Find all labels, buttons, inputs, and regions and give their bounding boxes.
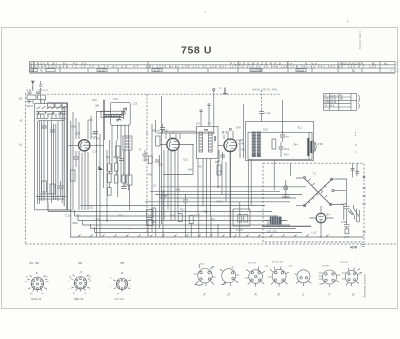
L6 winding hatch	[125, 138, 131, 147]
svg-text:R13: R13	[284, 154, 289, 157]
padding box C9	[127, 175, 132, 185]
svg-text:C 50: C 50	[317, 142, 323, 146]
voltage selector arm	[354, 209, 359, 222]
trimmer location B	[268, 266, 289, 286]
padder capacitor C2	[41, 126, 47, 128]
coil L4 winding lines	[54, 124, 56, 200]
right edge connection ticks	[363, 176, 367, 232]
socket UCH21 base	[27, 275, 47, 292]
trimmer location F	[319, 270, 341, 287]
IFT2 trimmers	[204, 130, 216, 142]
drops to chassis	[97, 210, 219, 237]
trimmer location A	[245, 267, 265, 287]
svg-text:B 2: B 2	[163, 129, 168, 133]
coupling cap C24	[221, 155, 226, 157]
top right feed wires	[353, 163, 358, 177]
chassis dashed boundary left	[25, 93, 27, 244]
svg-text:C 10: C 10	[65, 214, 71, 218]
svg-text:0,1: 0,1	[217, 185, 221, 189]
switch wafer lower	[36, 194, 66, 199]
svg-text:AE: AE	[31, 69, 35, 73]
svg-text:220 270: 220 270	[267, 229, 277, 233]
chassis dashed boundary bottom	[26, 243, 397, 245]
transformer feed taps	[296, 178, 347, 206]
heater bus line 3	[75, 215, 279, 217]
wires below tube B2	[168, 149, 178, 221]
tube B1 (UCH21 triode-hexode)	[79, 140, 90, 151]
socket UY21 pin labels	[110, 278, 132, 296]
smoothing capacitor C45	[344, 220, 350, 229]
svg-text:77: 77	[79, 270, 83, 274]
table value cell boxes	[30, 69, 306, 72]
barretter leads	[265, 221, 288, 227]
grid leak resistor R6	[156, 136, 161, 146]
dust speck top	[204, 11, 205, 12]
oscillator coil winding	[104, 114, 122, 116]
svg-text:g2: g2	[89, 276, 91, 278]
svg-text:5 0 Ω: 5 0 Ω	[217, 200, 223, 204]
svg-text:AL: AL	[384, 61, 388, 65]
oscillator trimmer C6	[121, 108, 126, 119]
svg-text:380: 380	[95, 105, 100, 108]
capacitor C41	[259, 110, 264, 122]
svg-text:C 47: C 47	[344, 235, 350, 239]
resistor R15	[108, 188, 112, 196]
svg-text:CBL 2525 BLBL.LTR 171 92 125: CBL 2525 BLBL.LTR 171 92 125 807 127 70 …	[146, 65, 377, 69]
svg-text:I-A: I-A	[324, 104, 327, 107]
screen bypass capacitor C5	[73, 151, 79, 167]
resistor R17	[114, 175, 118, 183]
grid cap B3	[229, 128, 231, 130]
socket UBL21 pin labels	[68, 276, 92, 295]
svg-text:4t-2: 4t-2	[330, 104, 335, 107]
svg-text:g2: g2	[46, 277, 48, 279]
svg-text:C40: C40	[236, 127, 241, 130]
volume potentiometer wire	[240, 104, 243, 158]
svg-text:S10: S10	[263, 129, 268, 132]
coil L2 winding lines	[42, 121, 45, 201]
fuse resistor R13	[345, 229, 349, 234]
osc coupling capacitor C26	[143, 150, 148, 162]
svg-text:k: k	[130, 286, 131, 288]
alignment table frame	[324, 94, 352, 111]
svg-text:S 21: S 21	[113, 98, 119, 101]
decoupling capacitor C23	[183, 194, 188, 212]
resistor R14	[108, 174, 112, 183]
bypass capacitor C22	[161, 190, 166, 210]
IF out coil S3 primary	[252, 132, 256, 158]
svg-text:S 9: S 9	[208, 123, 212, 126]
svg-text:—: —	[390, 70, 393, 73]
long vertical feed wires	[97, 100, 108, 222]
oscillator tuning arrow	[117, 108, 127, 122]
rectifier tube B4 circle	[316, 213, 326, 223]
alignment table text	[324, 94, 344, 107]
tube B3 (UBL21)	[224, 139, 237, 152]
svg-text:µ2 µ2: µ2 µ2	[237, 228, 244, 232]
svg-text:1M: 1M	[164, 195, 167, 198]
heater bus line 1	[81, 205, 266, 207]
coil can shield outer	[35, 104, 68, 210]
svg-text:R21: R21	[180, 209, 185, 212]
speaker feed wires	[308, 132, 310, 159]
svg-text:g: g	[111, 278, 112, 280]
svg-text:C34: C34	[170, 215, 175, 218]
svg-text:91 B7: 91 B7	[99, 69, 106, 73]
coil L3 winding lines	[48, 121, 52, 203]
heater bus line 2	[48, 211, 272, 213]
coupling capacitor C7	[119, 159, 124, 161]
svg-text:4G2N: 4G2N	[297, 69, 304, 73]
bias resistor R9	[189, 216, 193, 224]
oscillator grid resistor R4	[116, 146, 121, 157]
IFT2 secondary winding	[209, 132, 213, 152]
svg-text:R22: R22	[203, 211, 208, 214]
junction dots	[70, 111, 321, 238]
input filter box row	[48, 103, 68, 107]
anode wire tube B3 thick	[229, 152, 231, 237]
AVC resistor R5	[108, 164, 112, 172]
pilot lamp	[284, 186, 288, 190]
tracking coil L6	[123, 136, 132, 150]
output stage outer frame	[246, 122, 314, 161]
svg-text:BL: BL	[352, 69, 356, 73]
right column riser	[344, 179, 347, 220]
grid line tube B2	[160, 144, 193, 146]
svg-text:4V: 4V	[199, 166, 202, 169]
resistor R18	[122, 175, 126, 183]
tube B2 electrodes	[169, 138, 179, 151]
rectifier wires	[309, 206, 333, 237]
band switch cluster	[36, 106, 66, 120]
heater bus line 5	[83, 224, 291, 226]
capacitor C8	[121, 187, 127, 189]
svg-text:AANSL. GR. PL. AFB.: AANSL. GR. PL. AFB.	[252, 88, 278, 92]
socket UY21 base	[113, 278, 131, 292]
top right capacitor C51	[351, 169, 360, 174]
ladder verticals	[109, 140, 129, 210]
wire bundle below tube B1	[79, 151, 88, 210]
svg-text:C19: C19	[93, 151, 98, 154]
tube B2 (UCH21 IF)	[167, 138, 179, 150]
grid components left of B3	[215, 150, 223, 162]
aerial switch box 2	[38, 95, 46, 100]
auxiliary drop wires	[152, 140, 164, 232]
pilot lamp leads	[282, 180, 290, 198]
oscillator bottom squiggle	[117, 119, 121, 120]
aerial arrow	[32, 81, 35, 91]
output transformer loop	[248, 132, 312, 159]
anode jog	[230, 202, 239, 237]
svg-text:BEZLGLELDEN.: BEZLGLELDEN.	[340, 61, 364, 65]
svg-text:B 1: B 1	[76, 132, 81, 136]
svg-text:g4: g4	[26, 277, 28, 279]
grid cap wire	[68, 144, 104, 146]
osc coupling resistor R19	[149, 156, 153, 164]
component value labels scatter	[71, 98, 330, 222]
voltage table frame	[30, 61, 396, 73]
mains switch contacts	[348, 205, 354, 220]
svg-text:40V: 40V	[188, 169, 193, 172]
trimmer location K	[194, 264, 216, 287]
svg-text:UY 1 N: UY 1 N	[115, 297, 124, 301]
grid capacitor C21	[160, 124, 165, 134]
svg-text:C11: C11	[89, 207, 94, 210]
rectifier electrodes	[318, 213, 323, 223]
IFT2 primary winding	[199, 132, 203, 152]
alignment table brace	[358, 95, 361, 109]
svg-text:B1 ; B2: B1 ; B2	[30, 261, 40, 265]
IF transformer S2 frame	[197, 127, 219, 159]
screen feed risers	[152, 96, 162, 150]
mains entry marks	[362, 245, 365, 247]
earth bold mark	[223, 88, 228, 94]
svg-text:BL: BL	[372, 61, 376, 65]
aerial shunt coil L0	[27, 100, 45, 104]
heater bus line 6	[91, 228, 297, 230]
svg-text:0,1: 0,1	[153, 185, 157, 188]
svg-text:Gedrukt in Nederland: Gedrukt in Nederland	[363, 274, 366, 297]
socket UCH21 pin labels	[25, 277, 49, 296]
svg-text:50 mA: 50 mA	[152, 129, 160, 133]
left margin tick labels	[19, 99, 24, 147]
resistor R16	[114, 163, 118, 171]
svg-text:C16: C16	[88, 119, 93, 122]
svg-text:B3: B3	[79, 261, 83, 265]
block bottom bus	[48, 201, 71, 210]
svg-text:4n: 4n	[286, 135, 290, 139]
wires into tube B2	[160, 133, 180, 140]
svg-text:C 41: C 41	[265, 111, 271, 115]
coil L1 winding lines	[38, 121, 40, 204]
svg-text:C 66: C 66	[341, 220, 347, 224]
dashed screen line over IF stage	[47, 93, 280, 95]
decoupling stack box C32	[147, 220, 154, 226]
svg-text:C28: C28	[143, 159, 148, 162]
output box feed drops	[274, 161, 290, 191]
junction blob	[99, 166, 104, 170]
dashed screen drop	[146, 94, 148, 232]
bias resistor Ra	[238, 215, 242, 223]
svg-text:R20: R20	[118, 215, 123, 218]
tube B3 electrodes	[227, 139, 237, 152]
IF out coil S3 secondary	[257, 132, 261, 158]
tone capacitor C43	[279, 142, 284, 157]
IF input bus	[157, 132, 213, 134]
trimmer letters row	[204, 293, 356, 297]
tube B1 electrodes	[81, 140, 90, 151]
mains autotransformer crossed windings	[304, 176, 335, 206]
svg-text:B 3: B 3	[222, 131, 227, 135]
dashed lead-in to detector	[261, 90, 263, 110]
svg-text:A: A	[254, 293, 257, 297]
coil can inner divider	[64, 104, 67, 210]
aerial switch box	[27, 95, 36, 100]
svg-text:I 758 U 24-53: I 758 U 24-53	[358, 31, 362, 50]
socket group left: label row	[30, 261, 125, 275]
svg-text:a.o: a.o	[25, 281, 28, 283]
trimmer location C	[294, 270, 311, 286]
IF bus upper branch	[165, 130, 196, 132]
svg-text:S 8: S 8	[196, 123, 200, 126]
secondary drops	[248, 159, 251, 210]
svg-text:UBL 21: UBL 21	[74, 297, 84, 301]
screen resistor R7	[152, 208, 156, 222]
grid resistor R10	[217, 165, 221, 175]
trimmer location G	[342, 268, 363, 286]
wires into tube B3	[218, 131, 233, 145]
decoupling stack box C29	[147, 210, 154, 218]
svg-text:S18 S19: S18 S19	[322, 266, 330, 268]
speaker cone	[313, 140, 316, 153]
detector sub-box	[233, 209, 250, 226]
wire osc to mixer	[97, 100, 118, 140]
anode feed wire	[282, 100, 284, 132]
margin marks right	[397, 63, 399, 72]
bias resistor Rb	[244, 215, 248, 223]
svg-text:R11: R11	[242, 149, 247, 152]
socket names row	[31, 297, 124, 301]
coil L5 winding lines	[58, 106, 62, 203]
trimmer dots column	[355, 132, 357, 153]
supply link line 3	[155, 194, 302, 196]
padding capacitor C20	[93, 132, 98, 134]
IFT2 top stubs	[200, 104, 211, 127]
svg-text:758 U: 758 U	[181, 45, 212, 57]
earth terminal	[39, 81, 43, 104]
socket UBL21 base	[71, 275, 91, 292]
tone capacitor C42	[280, 132, 285, 142]
svg-text:C31: C31	[183, 159, 188, 162]
aerial series capacitor C1	[28, 92, 41, 94]
svg-text:8n2: 8n2	[285, 147, 290, 151]
AVC line	[163, 145, 193, 175]
padding trimmer C27	[155, 160, 160, 162]
barretter R12	[270, 217, 282, 225]
svg-text:C25: C25	[133, 103, 138, 106]
svg-text:C44: C44	[293, 144, 298, 147]
svg-text:AGLPJR.: AGLPJR.	[251, 69, 262, 73]
svg-text:k: k	[46, 289, 47, 291]
svg-text:C 49: C 49	[239, 142, 245, 146]
svg-text:C37: C37	[194, 215, 199, 218]
svg-text:500 Ω: 500 Ω	[27, 105, 33, 108]
svg-text:65Ω: 65Ω	[73, 221, 78, 225]
detector diode load R11	[272, 139, 276, 149]
svg-text:C15: C15	[92, 99, 97, 102]
svg-text:L 62: L 62	[312, 230, 318, 234]
resistor R1	[42, 181, 47, 192]
svg-text:B5: B5	[121, 261, 125, 265]
dust speck right	[347, 21, 348, 22]
svg-text:S14 S15: S14 S15	[248, 263, 257, 265]
chassis link thick	[262, 225, 311, 227]
resistor R2	[50, 184, 55, 194]
heater bus line 4	[78, 220, 284, 222]
oscillator block L5	[111, 102, 131, 125]
cathode resistor R8	[178, 214, 182, 222]
chassis bus	[70, 235, 364, 238]
table column dividers	[34, 61, 381, 72]
svg-text:AE: AE	[20, 120, 24, 123]
capacitor C4	[58, 181, 64, 196]
svg-text:k: k	[89, 289, 90, 291]
svg-text:C12: C12	[96, 218, 101, 221]
svg-text:C 46: C 46	[217, 170, 223, 174]
smoothing capacitor C44	[344, 202, 350, 214]
cathode resistor R3	[71, 170, 76, 181]
svg-text:C 20: C 20	[91, 135, 97, 139]
svg-text:S16 S17 S16: S16 S17 S16	[272, 262, 284, 264]
wire bundle to tube B1	[71, 112, 91, 237]
supply link line 1	[160, 186, 306, 188]
svg-text:C30: C30	[158, 164, 163, 167]
supply link line 2	[150, 190, 280, 192]
svg-text:S11: S11	[298, 127, 303, 130]
trimmer location D	[220, 269, 240, 286]
svg-text:g3: g3	[69, 276, 71, 278]
supply link line 4	[160, 197, 296, 199]
svg-text:3-30: 3-30	[71, 126, 77, 129]
HT rail top terminal	[213, 89, 215, 91]
oscillator coil box	[101, 111, 124, 117]
heater bus line 7	[95, 232, 303, 234]
oscillator wires down	[112, 125, 129, 198]
svg-text:40 W: 40 W	[350, 245, 357, 249]
speaker transformer core	[307, 138, 312, 156]
trimmer C3	[50, 130, 55, 132]
supply link line 5	[145, 201, 290, 203]
alignment table extra column	[351, 94, 357, 111]
HT rail from top	[213, 91, 215, 133]
svg-text:C58 C59: C58 C59	[340, 262, 349, 264]
svg-text:C33: C33	[148, 215, 153, 218]
svg-text:C39: C39	[210, 219, 215, 222]
svg-text:PLOEGBAZENAD Te: PLOEGBAZENAD Te	[230, 61, 293, 65]
wires IFT2 down	[198, 159, 211, 217]
svg-text:UCH 21: UCH 21	[31, 297, 42, 301]
link drops	[218, 160, 226, 202]
svg-text:91 B7: 91 B7	[154, 69, 161, 73]
socket top labels scatter	[200, 260, 366, 299]
left section bottom drops	[48, 204, 95, 233]
power unit dashed enclosure	[263, 163, 364, 242]
